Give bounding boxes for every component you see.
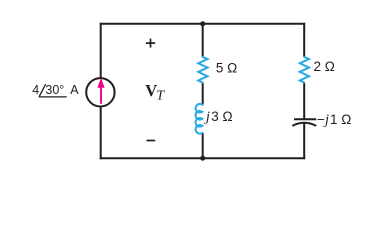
svg-text:1 Ω: 1 Ω: [330, 112, 351, 127]
svg-text:5 Ω: 5 Ω: [216, 60, 237, 75]
svg-text:3 Ω: 3 Ω: [211, 109, 232, 124]
svg-text:j: j: [204, 109, 210, 125]
svg-text:30°: 30°: [45, 83, 64, 97]
svg-text:T: T: [156, 89, 165, 104]
svg-text:2 Ω: 2 Ω: [314, 59, 335, 74]
svg-text:A: A: [70, 83, 79, 97]
svg-text:4: 4: [32, 83, 39, 97]
svg-text:−: −: [317, 112, 325, 127]
